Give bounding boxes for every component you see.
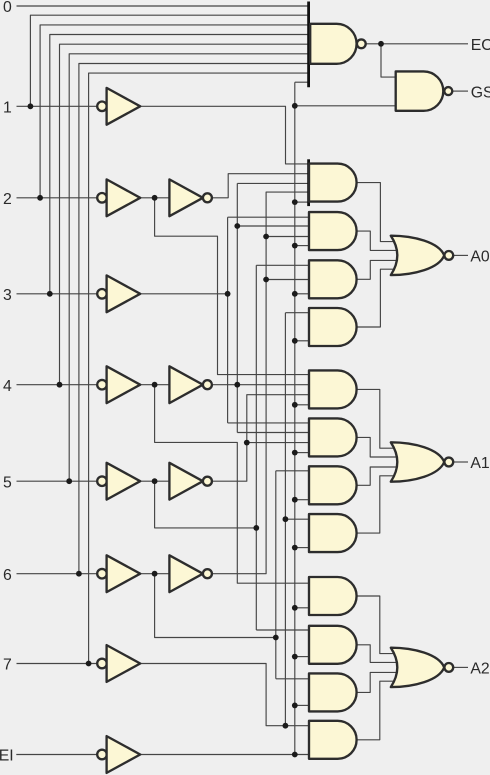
svg-text:3: 3 [3, 287, 12, 304]
svg-text:0: 0 [3, 0, 12, 16]
svg-text:2: 2 [3, 191, 12, 208]
svg-text:6: 6 [3, 567, 12, 584]
svg-text:A0: A0 [470, 249, 490, 266]
svg-text:5: 5 [3, 474, 12, 491]
svg-text:A2: A2 [470, 661, 489, 678]
svg-text:7: 7 [3, 657, 12, 674]
svg-text:EO: EO [471, 37, 490, 54]
svg-text:GS: GS [471, 84, 490, 101]
svg-text:EI: EI [0, 748, 14, 765]
svg-text:1: 1 [3, 100, 12, 117]
svg-text:A1: A1 [470, 455, 490, 472]
svg-text:4: 4 [3, 378, 12, 395]
